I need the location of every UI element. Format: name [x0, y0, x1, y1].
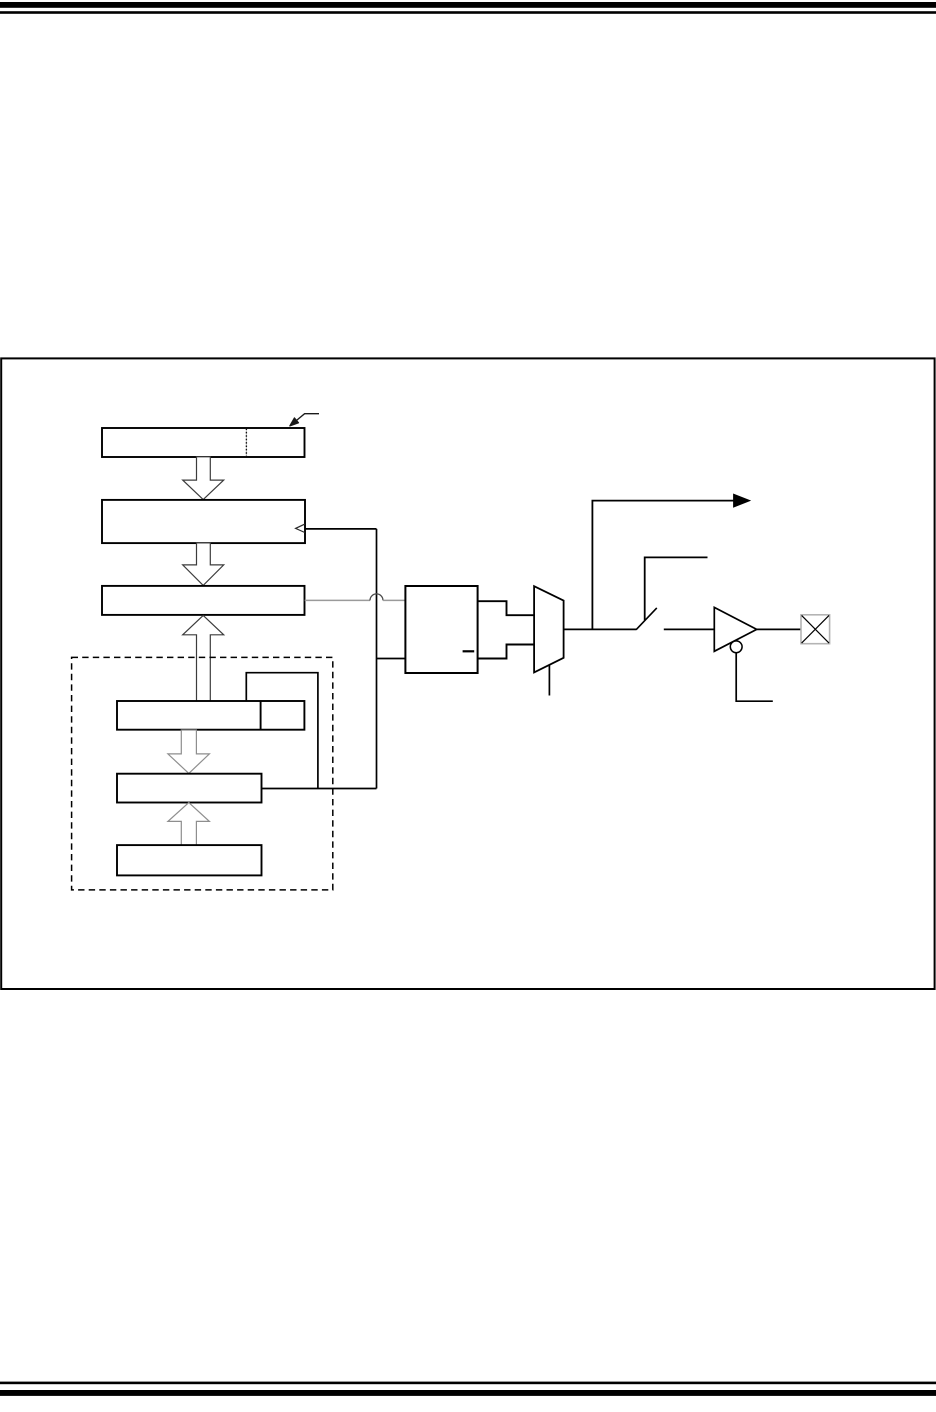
register boxA (with divider)	[117, 701, 304, 730]
function block U1	[405, 586, 477, 673]
register box1 (with dashed field divider)	[102, 428, 305, 457]
register box2	[102, 500, 305, 543]
switch control wire	[645, 557, 708, 620]
boxA top connector wire	[246, 673, 318, 789]
top thin header rule	[0, 11, 936, 14]
bottom thick footer rule	[0, 1390, 936, 1396]
box1 dotted divider	[245, 429, 247, 457]
gray wire box3 to block (right segment)	[383, 599, 405, 601]
IO pad square	[801, 615, 830, 644]
gray wire box3 to block (left segment)	[305, 599, 370, 601]
feedback riser wire	[592, 501, 734, 630]
mux trapezoid	[534, 586, 564, 672]
bottom thin footer rule	[0, 1382, 936, 1385]
wire from box2 right to vertical bus	[305, 528, 377, 530]
box1 divider faint line	[245, 429, 247, 457]
minus dash label in block	[463, 650, 475, 652]
block arrow down 1	[183, 457, 224, 500]
pad X diagonal 1	[802, 615, 829, 643]
gray block arrow up (boxC to boxB)	[168, 803, 210, 846]
mux select stub	[548, 665, 550, 696]
open arrowhead into box2	[296, 524, 305, 532]
switch blade	[636, 608, 657, 630]
annotation arrowhead	[290, 418, 299, 426]
dashed group box	[72, 657, 333, 890]
stub wire from bus to block	[377, 658, 406, 660]
output buffer triangle	[714, 607, 756, 651]
wire boxB to bus	[262, 788, 377, 790]
upper block-to-mux path	[478, 601, 534, 615]
enable bubble	[730, 641, 742, 653]
vertical bus wire	[376, 529, 378, 789]
lower block-to-mux path	[478, 645, 534, 659]
block arrow up (into box3)	[183, 615, 224, 701]
register boxB	[117, 774, 262, 803]
block arrow down 2	[183, 543, 224, 586]
boxA divider	[260, 701, 262, 730]
filled arrowhead right	[734, 494, 750, 507]
top thick header rule	[0, 2, 936, 8]
register boxC	[117, 845, 262, 875]
gray block arrow down (boxA to boxB)	[168, 730, 210, 773]
register box3	[102, 586, 305, 615]
buffer output wire	[757, 628, 801, 630]
wire hop over bus	[370, 594, 383, 600]
pad X diagonal 2	[802, 615, 829, 643]
enable wire	[736, 653, 773, 701]
mux output wire	[564, 628, 636, 630]
wire switch to buffer	[664, 628, 715, 630]
figure frame	[1, 358, 934, 989]
annotation leader line	[293, 414, 320, 424]
